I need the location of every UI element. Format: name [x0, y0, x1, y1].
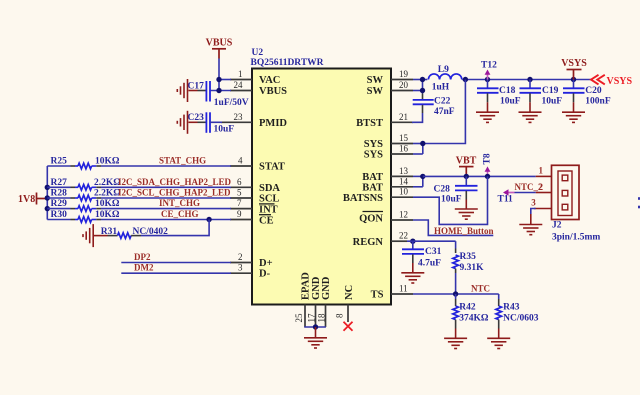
svg-text:10KΩ: 10KΩ — [95, 157, 120, 167]
svg-text:1uH: 1uH — [432, 82, 450, 92]
svg-text:20: 20 — [399, 80, 409, 90]
capacitor C20 100nF — [563, 80, 611, 107]
svg-text:10KΩ: 10KΩ — [95, 210, 120, 220]
svg-text:SW: SW — [367, 75, 384, 86]
svg-text:QON: QON — [359, 214, 383, 225]
svg-text:C31: C31 — [425, 247, 442, 257]
U2 pin 7 stub — [230, 208, 252, 210]
wire R31 to CE — [141, 220, 209, 236]
U2 pin 4 stub — [230, 165, 252, 167]
junction C19 — [527, 77, 532, 82]
svg-text:SW: SW — [367, 86, 384, 97]
svg-text:SCL: SCL — [259, 194, 279, 205]
svg-text:22: 22 — [399, 231, 408, 241]
wire BAT pins join — [413, 175, 423, 177]
U2 pin 14 stub — [391, 186, 413, 188]
resistor R35 9.31K vertical — [453, 241, 484, 294]
svg-text:BAT: BAT — [362, 182, 383, 193]
svg-text:1: 1 — [238, 69, 243, 79]
svg-text:D+: D+ — [259, 258, 273, 269]
svg-text:EPAD: EPAD — [301, 272, 312, 300]
connector J2 body — [552, 165, 601, 242]
svg-text:CE: CE — [259, 215, 274, 226]
ground for C28 — [455, 200, 478, 220]
testpoint T11 left arrow — [498, 189, 515, 204]
U2 pin 20 stub — [391, 90, 413, 92]
wire BATSNS return — [413, 176, 488, 224]
junction SYS — [420, 141, 425, 146]
wire VBUS vertical — [218, 59, 220, 91]
junction SW pin20 — [420, 88, 425, 93]
U2 pin 15 stub — [391, 143, 413, 145]
svg-text:SDA: SDA — [259, 183, 280, 194]
U2 pin 13 stub — [391, 175, 413, 177]
U2 pin 21 stub — [391, 121, 413, 123]
wire TS row — [413, 293, 499, 295]
ground for J2 pin 3 — [519, 214, 542, 235]
resistor R27 2.2K row — [47, 178, 121, 190]
wire QON to HOME_Button — [413, 220, 493, 235]
U2 pin 19 stub — [391, 79, 413, 81]
svg-text:VAC: VAC — [259, 75, 280, 86]
junction TS R42 — [453, 291, 458, 296]
power symbol VSYS — [561, 58, 587, 80]
wire SW pins to L9 — [413, 79, 427, 81]
svg-text:24: 24 — [234, 80, 244, 90]
svg-text:11: 11 — [399, 284, 408, 294]
svg-text:R27: R27 — [51, 178, 68, 188]
junction C20 VSYS — [571, 77, 576, 82]
svg-text:1: 1 — [539, 166, 544, 176]
ground for R43 — [487, 329, 510, 349]
wire VBUS to pin 1 — [219, 79, 231, 81]
wire C23 to pin 23 — [210, 121, 222, 123]
svg-text:U2: U2 — [252, 48, 264, 58]
capacitor C17 — [188, 81, 249, 108]
U2 pin 25 stub (EPAD) — [304, 305, 306, 328]
svg-text:3pin/1.5mm: 3pin/1.5mm — [552, 233, 600, 243]
svg-text:100nF: 100nF — [585, 97, 611, 107]
ground for C23 — [177, 111, 197, 134]
U2 pin 23 stub — [221, 121, 252, 123]
resistor R29 10K row — [47, 199, 120, 211]
svg-text:3: 3 — [531, 197, 536, 207]
svg-text:374KΩ: 374KΩ — [459, 314, 489, 324]
ground for R31 — [83, 224, 108, 247]
J2 pin 1 — [536, 175, 552, 177]
junction bus R27 — [45, 185, 50, 190]
wire stub right edge upper — [638, 197, 640, 200]
capacitor C23 — [188, 112, 235, 134]
svg-text:STAT_CHG: STAT_CHG — [159, 156, 206, 166]
inductor L9 1uH — [428, 65, 461, 92]
wire I2C_SDA — [101, 186, 231, 188]
wire DP2 — [121, 262, 231, 264]
svg-text:12: 12 — [399, 210, 408, 220]
svg-text:7: 7 — [237, 198, 242, 208]
svg-text:10uF: 10uF — [542, 97, 563, 107]
ground for C20 — [562, 102, 585, 122]
svg-text:R43: R43 — [503, 303, 520, 313]
svg-text:C23: C23 — [188, 113, 205, 123]
wire NTC_2 — [515, 192, 536, 194]
junction CE R31 — [206, 217, 211, 222]
svg-text:R25: R25 — [51, 157, 68, 167]
wire J2 pin3 to ground — [531, 209, 536, 215]
junction BAT — [420, 174, 425, 179]
U2 pin 10 stub — [391, 196, 413, 198]
junction T8 BATSNS — [485, 174, 490, 179]
U2 pin 3 stub — [230, 272, 252, 274]
svg-text:NTC_2: NTC_2 — [515, 182, 544, 192]
svg-text:DP2: DP2 — [134, 252, 151, 262]
power symbol VBUS — [206, 38, 233, 59]
power symbol VBT — [456, 156, 477, 177]
svg-text:DM2: DM2 — [134, 263, 154, 273]
U2 pin 2 stub — [230, 262, 252, 264]
capacitor C18 10uF — [477, 80, 521, 107]
svg-text:STAT: STAT — [259, 162, 285, 173]
U2 pin 6 stub — [230, 186, 252, 188]
svg-text:SYS: SYS — [364, 150, 383, 161]
junction VBT C28 — [464, 174, 469, 179]
svg-text:VBT: VBT — [456, 156, 477, 167]
testpoint T12 — [481, 60, 497, 79]
U2 pin 18 stub (GND) — [325, 305, 327, 328]
svg-text:14: 14 — [399, 176, 409, 186]
svg-text:GND: GND — [321, 276, 332, 300]
svg-text:L9: L9 — [438, 65, 449, 75]
U2 pin 9 stub — [230, 219, 252, 221]
wire REGN — [407, 240, 456, 242]
off-page connector VSYS — [591, 75, 633, 87]
no-connect X on pin 8 — [344, 322, 353, 331]
svg-text:47nF: 47nF — [434, 107, 455, 117]
IC U2 BQ25611DRTWR body — [252, 69, 391, 305]
resistor R30 10K row — [47, 210, 120, 222]
svg-text:NTC: NTC — [471, 284, 490, 294]
U2 pin 24 stub — [230, 90, 252, 92]
wire INT_CHG — [101, 208, 231, 210]
wire STAT_CHG — [101, 165, 231, 167]
svg-text:8: 8 — [335, 313, 345, 318]
power symbol 1V8 — [18, 193, 47, 206]
svg-text:T11: T11 — [498, 194, 514, 204]
svg-text:PMID: PMID — [259, 118, 287, 129]
capacitor C31 4.7uF — [402, 241, 442, 268]
junction bus R29 — [45, 206, 50, 211]
wire CE_CHG — [101, 219, 231, 221]
svg-text:BTST: BTST — [356, 118, 383, 129]
resistor R28 2.2K row — [47, 189, 121, 201]
svg-text:C20: C20 — [585, 86, 602, 96]
svg-text:9.31K: 9.31K — [460, 263, 485, 273]
wire L9 out — [462, 79, 487, 81]
svg-text:CE_CHG: CE_CHG — [161, 209, 199, 219]
U2 pin 8 stub (NC) — [347, 305, 349, 323]
svg-text:25: 25 — [294, 313, 304, 323]
svg-text:4.7uF: 4.7uF — [418, 259, 441, 269]
svg-text:TS: TS — [371, 290, 384, 301]
wire I2C_SCL — [101, 197, 231, 199]
junction VBUS pin24 — [216, 88, 221, 93]
svg-text:D-: D- — [259, 269, 271, 280]
svg-text:J2: J2 — [552, 221, 562, 231]
svg-text:T8: T8 — [483, 153, 493, 164]
capacitor C19 10uF — [520, 80, 563, 107]
svg-text:I2C_SCL_CHG_HAP2_LED: I2C_SCL_CHG_HAP2_LED — [118, 188, 231, 198]
svg-text:T12: T12 — [481, 60, 497, 70]
svg-text:NC/0603: NC/0603 — [503, 314, 539, 324]
svg-text:10uF: 10uF — [441, 194, 462, 204]
svg-text:R30: R30 — [51, 210, 68, 220]
svg-text:6: 6 — [237, 177, 242, 187]
ground for R42 — [444, 329, 467, 349]
wire C22 to BTST pin 21 — [412, 113, 423, 122]
svg-text:18: 18 — [317, 313, 327, 323]
U2 pin 17 stub (GND) — [315, 305, 317, 328]
U2 pin 16 stub — [391, 153, 413, 155]
junction bus R28 — [45, 195, 50, 200]
junction L9 out — [463, 77, 468, 82]
ground for C31 — [401, 263, 424, 283]
U2 pin 11 stub — [391, 293, 413, 295]
svg-text:INT: INT — [259, 204, 278, 215]
svg-text:VSYS: VSYS — [561, 58, 587, 69]
wire DM2 — [121, 272, 231, 274]
svg-text:10uF: 10uF — [214, 124, 235, 134]
junction bottom ground — [313, 324, 318, 329]
svg-text:C28: C28 — [434, 185, 451, 195]
svg-text:13: 13 — [399, 166, 409, 176]
svg-text:10: 10 — [399, 187, 409, 197]
J2 pin 2 — [536, 192, 552, 194]
resistor R25 10K row — [47, 157, 120, 169]
wire C17 to pin 24 — [210, 90, 231, 92]
svg-text:21: 21 — [399, 112, 408, 122]
capacitor C22 47nF — [413, 94, 455, 117]
svg-text:VSYS: VSYS — [607, 76, 633, 87]
ground for C17 — [177, 79, 197, 102]
svg-text:BQ25611DRTWR: BQ25611DRTWR — [251, 58, 324, 68]
svg-text:4: 4 — [238, 156, 243, 166]
svg-text:2: 2 — [238, 252, 243, 262]
resistor R42 374K vertical — [453, 294, 489, 329]
svg-text:INT_CHG: INT_CHG — [159, 198, 200, 208]
wire SW rail to VSYS — [488, 79, 592, 81]
svg-text:10uF: 10uF — [500, 97, 521, 107]
svg-text:SYS: SYS — [364, 139, 383, 150]
svg-text:REGN: REGN — [353, 237, 384, 248]
resistor R43 NC/0603 vertical — [496, 294, 539, 329]
U2 pin 1 stub — [230, 79, 252, 81]
svg-text:17: 17 — [307, 313, 317, 323]
svg-text:C18: C18 — [499, 86, 516, 96]
svg-text:R29: R29 — [51, 199, 68, 209]
svg-text:VBUS: VBUS — [206, 38, 233, 49]
U2 pin 22 stub — [391, 240, 407, 242]
svg-text:BAT: BAT — [362, 172, 383, 183]
ground for C19 — [519, 102, 542, 122]
svg-text:15: 15 — [399, 133, 409, 143]
testpoint T8 — [483, 153, 493, 176]
svg-text:BATSNS: BATSNS — [343, 193, 383, 204]
svg-text:VBUS: VBUS — [259, 86, 287, 97]
junction T12 C18 — [485, 77, 490, 82]
svg-text:5: 5 — [237, 188, 242, 198]
wire 1V8 bus vertical — [46, 166, 48, 220]
junction REGN C31 — [410, 239, 415, 244]
U2 pin 5 stub — [230, 197, 252, 199]
svg-text:1V8: 1V8 — [18, 194, 35, 205]
svg-text:NC: NC — [344, 285, 355, 300]
J2 pin 3 — [534, 208, 552, 210]
svg-text:R31: R31 — [101, 227, 118, 237]
svg-text:16: 16 — [399, 144, 409, 154]
wire stub right edge lower — [638, 206, 640, 209]
svg-text:19: 19 — [399, 69, 409, 79]
resistor R31 NC/0402 — [101, 227, 168, 238]
junction SW pin19 — [420, 77, 425, 82]
capacitor C28 10uF — [434, 176, 478, 204]
svg-text:I2C_SDA_CHG_HAP2_LED: I2C_SDA_CHG_HAP2_LED — [118, 177, 232, 187]
wire BAT rail — [423, 175, 536, 177]
svg-text:R35: R35 — [460, 252, 477, 262]
svg-text:10KΩ: 10KΩ — [95, 199, 120, 209]
svg-text:1uF/50V: 1uF/50V — [214, 98, 249, 108]
wire L9 out down to SYS — [423, 80, 466, 144]
svg-text:C19: C19 — [542, 86, 559, 96]
svg-text:23: 23 — [234, 112, 244, 122]
svg-text:R28: R28 — [51, 189, 68, 199]
junction VBUS pin1 — [216, 77, 221, 82]
svg-text:3: 3 — [238, 263, 243, 273]
wire SYS pins join — [413, 143, 423, 145]
wire GND pins bottom — [304, 326, 326, 328]
svg-text:9: 9 — [237, 209, 242, 219]
svg-text:C22: C22 — [434, 97, 451, 107]
ground for C18 — [476, 102, 499, 122]
svg-text:R42: R42 — [459, 303, 476, 313]
ground for U2 GND pins — [304, 327, 327, 348]
svg-text:HOME_Button: HOME_Button — [434, 226, 494, 236]
U2 pin 12 stub — [391, 219, 413, 221]
